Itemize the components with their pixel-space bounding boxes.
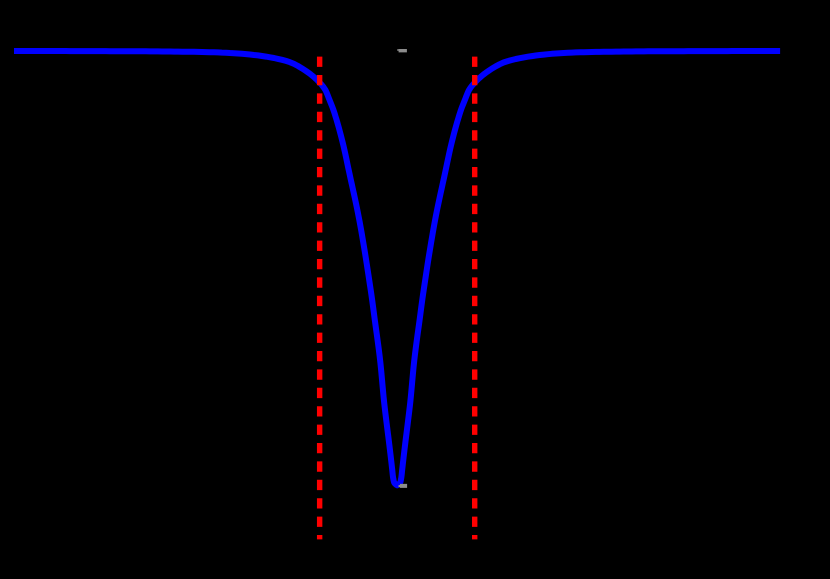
blue transmission dip curve xyxy=(14,51,780,485)
right red dashed vertical line xyxy=(472,57,477,540)
gray marker at dip minimum (bottom, center) xyxy=(399,484,408,488)
left red dashed vertical line xyxy=(317,57,322,540)
gray marker at baseline (top, center) xyxy=(397,49,407,52)
